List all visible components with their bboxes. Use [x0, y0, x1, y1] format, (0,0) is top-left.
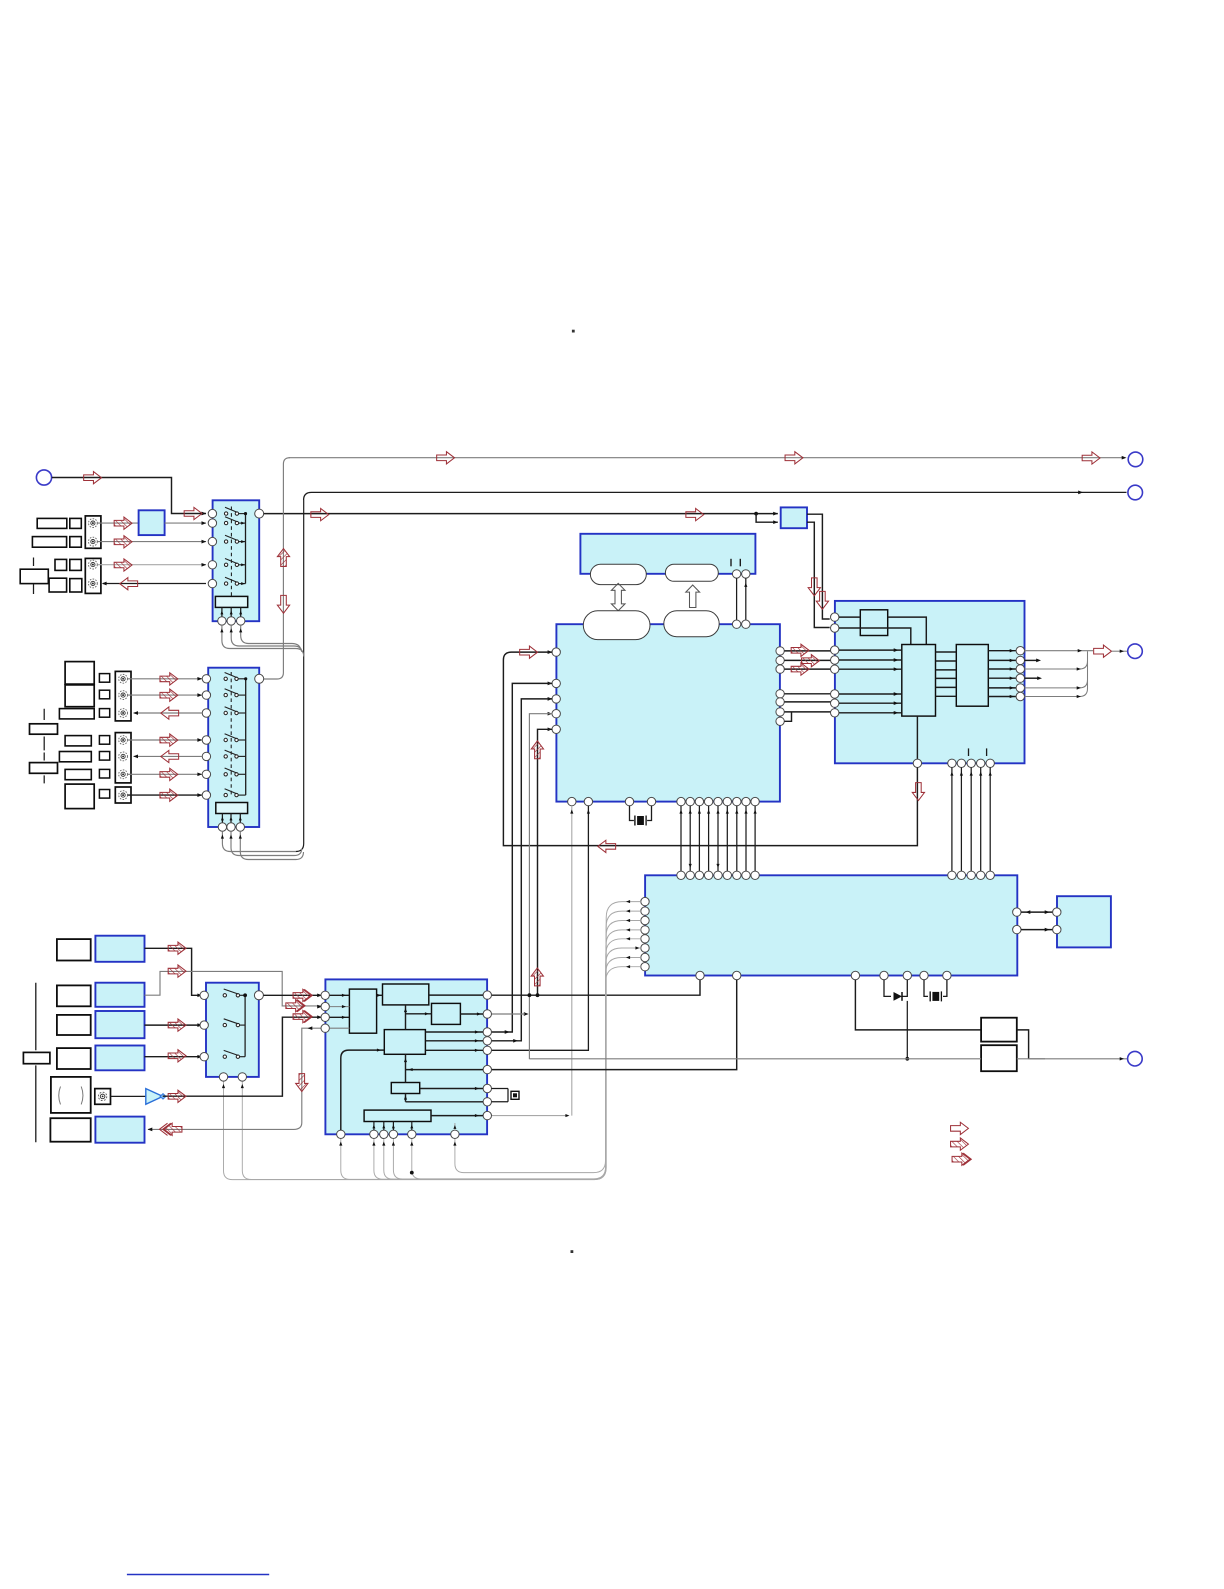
arrow B5 open left: [161, 750, 179, 762]
jack J2 top: [89, 560, 98, 569]
DSP2 bottom arrowhead: [382, 1142, 385, 1146]
SW2 pin3: [202, 709, 210, 717]
SW1 switch s3: [224, 535, 245, 543]
label box VIDEO2: [32, 537, 66, 548]
sysctl left pin 4: [641, 926, 649, 934]
wire out-pin 5: [988, 686, 1016, 689]
SW2 output pin: [255, 674, 264, 683]
wire main-dac g2-4: [785, 712, 792, 721]
SW1 collector: [245, 514, 247, 584]
jack J5 a: [119, 791, 128, 800]
wire J5a to SW2: [128, 793, 203, 797]
arrowhead ctl black: [587, 810, 590, 814]
DSP2 right pin 3: [483, 1028, 491, 1036]
system bar block: [580, 534, 755, 574]
wire main-dac g2-3: [785, 711, 831, 713]
arrow A6 open: [184, 507, 202, 519]
arrow E5 hatch up: [531, 968, 543, 986]
arrowhead into SW1 pin1: [202, 512, 207, 516]
junction dot standby: [905, 1057, 909, 1061]
wire J3b to SW2: [128, 693, 203, 697]
DSP2 right pin 5: [483, 1046, 491, 1054]
label box TP2: [59, 752, 91, 762]
deck plate 2: [30, 763, 58, 774]
main left pin 1: [552, 648, 560, 656]
SW3 collector: [244, 995, 246, 1056]
arrow D1 hatch: [791, 644, 809, 656]
SW2 bottom pin 2: [227, 823, 235, 831]
wire dac in g3-1: [839, 692, 902, 696]
bus wire main-wide 3: [698, 806, 700, 871]
DSP2 right pin 4: [483, 1037, 491, 1045]
riser pin2b gray stub: [491, 1013, 525, 1015]
wire J4c to SW2: [128, 772, 203, 776]
arrowhead main left 2: [548, 682, 553, 686]
SW1 stub arrowhead s5: [241, 582, 245, 585]
DSP2 wire m3: [425, 1049, 483, 1052]
bar stadium S1: [590, 564, 646, 584]
DSP2 right pin 8: [483, 1098, 491, 1106]
arrow G1 hatch2: [293, 989, 312, 1001]
DSP2 left pin 1: [321, 991, 329, 999]
wire mixer-out 6: [936, 695, 957, 697]
label box TP3: [65, 769, 91, 779]
SW3 bot arrowhead 2: [241, 1084, 244, 1088]
extension block U502: [1057, 896, 1111, 947]
bus arrowhead up 4: [707, 810, 710, 814]
wire dacpin2 around: [839, 628, 911, 645]
DSP2 wire out4: [330, 1027, 350, 1029]
jack block J5: [115, 787, 131, 803]
DSP2 left pin 3: [321, 1013, 329, 1021]
SW1 latch wire 2: [230, 607, 233, 616]
jack J3 b: [119, 691, 128, 700]
DSP2 right pin 9: [483, 1111, 491, 1119]
SW2 collector: [245, 679, 247, 795]
jack block J2: [85, 558, 101, 593]
crystal X301 wires: [630, 806, 652, 821]
wire J4a to SW2: [128, 738, 203, 742]
arrow F6 hatch3 left: [159, 1123, 182, 1135]
crystal X601: [503, 1091, 519, 1100]
bus arrowhead down: [689, 864, 692, 868]
DIR box U201: [781, 507, 807, 528]
wire out-pin 6: [988, 695, 1016, 698]
DSP2 left pin 2: [321, 1002, 329, 1010]
DSP2 wire b: [429, 994, 483, 996]
wire dac in g3-2: [839, 701, 902, 705]
bus wire main-wide 2: [689, 806, 691, 871]
diode D501 wires: [884, 980, 907, 997]
sysctl ctl wire 1: [224, 902, 641, 1180]
arrowhead ctl out 7: [626, 956, 630, 959]
SW1 dashed control line: [230, 507, 232, 597]
arrowhead riser3: [513, 1039, 518, 1043]
arrow F1 hatch: [168, 942, 186, 954]
DSP2 wire vert2: [404, 1054, 407, 1082]
jack J4 a: [119, 736, 128, 745]
crystal X501: [930, 991, 941, 1001]
SW2 bottom arrowhead: [239, 835, 242, 839]
wire SW3 to DSP2: [263, 993, 322, 997]
arrowhead DIR in1: [773, 512, 778, 516]
legend arrow hatch: [951, 1138, 969, 1150]
main bottom pin 13: [751, 797, 759, 805]
DAC bottom pin 3: [967, 759, 975, 767]
wire main-dac 3: [785, 668, 831, 670]
label box TAPE d: [70, 579, 82, 592]
arrowhead ctl out 8: [626, 965, 630, 968]
main left pin 4: [552, 710, 560, 718]
DSP2 bottom rect: [364, 1110, 431, 1121]
sysctl right pin 2: [1013, 925, 1021, 933]
stray dot bottom: [571, 1250, 574, 1253]
SW2 bottom pin 3: [236, 823, 244, 831]
DSP2 wire in3: [330, 1016, 350, 1019]
wire pin9 gray link: [491, 1114, 569, 1117]
deck dashed line 2: [43, 709, 45, 784]
wire mixer-out 4: [936, 677, 957, 679]
arrow F7 hatch down: [296, 1074, 308, 1092]
arrowhead main left 5: [548, 727, 553, 731]
legend arrow hatch2: [952, 1153, 971, 1165]
main right pin g1-2: [776, 656, 784, 664]
arrowhead DIR in2: [773, 520, 778, 524]
SW1 pin2: [208, 519, 216, 527]
SW2 latch wire 1: [221, 814, 224, 823]
arrow B3 open left: [161, 707, 179, 719]
SW1 bottom arrowhead: [239, 628, 242, 632]
wire out-pin 1: [988, 649, 1016, 652]
DSP2 bottom arrowhead: [392, 1142, 395, 1146]
arrowhead at J2 bottom: [102, 582, 107, 586]
jack block J3: [115, 671, 131, 721]
main top pin c2: [742, 620, 750, 628]
crystal X501 wires: [924, 980, 947, 997]
sysctl bottom pin 3: [851, 971, 859, 979]
label box VIDEO2b: [70, 537, 82, 548]
arrow A5 open left: [120, 578, 138, 590]
wire sp line6: [1025, 689, 1088, 699]
DAC right pin 5: [1016, 684, 1024, 692]
sysctl left pin 2: [641, 907, 649, 915]
DAC left pin 2: [831, 624, 839, 632]
DAC right pin 6: [1016, 692, 1024, 700]
switch block SW3: [206, 983, 259, 1077]
junction dot riser5: [536, 993, 540, 997]
sysctl bottom pin 6: [920, 971, 928, 979]
arrowhead main left 4: [548, 712, 553, 716]
wire J1top to AD converter: [98, 522, 139, 524]
DAC bottom pin 5: [986, 759, 994, 767]
sysctl top pin 2: [686, 871, 694, 879]
SW3 switch s2: [223, 1019, 245, 1027]
DAC bottom pin 1: [948, 759, 956, 767]
DSP2 left pin 4: [321, 1024, 329, 1032]
arrow E3 open: [520, 646, 538, 658]
SW2 pin4: [202, 736, 210, 744]
main left pin 3: [552, 695, 560, 703]
source box TAPE2: [95, 1046, 144, 1071]
SW2 pin2: [202, 691, 210, 699]
wire J3a to SW2: [128, 677, 203, 681]
jack J3 a: [119, 674, 128, 683]
switch block SW2: [208, 668, 259, 827]
DSP2 bottom arrowhead: [410, 1142, 413, 1146]
DSP2 bottom pin 5: [408, 1130, 416, 1138]
SW2 dashed control line: [230, 672, 232, 797]
SW3 pin3: [200, 1053, 208, 1061]
arrowhead SW1 pin3: [202, 540, 207, 544]
arrow D4 open: [1094, 645, 1112, 657]
DSP2 wire sm out: [420, 1087, 483, 1090]
sysctl left pin 5: [641, 935, 649, 943]
SW3 out pin: [254, 991, 263, 1000]
wire to sp node: [1112, 650, 1128, 653]
sysctl left pin 6: [641, 944, 649, 952]
DSP2 botrect wire: [372, 1122, 375, 1131]
riser pin3: [491, 699, 552, 1041]
main left pin 5: [552, 725, 560, 733]
wire sp stub2: [1025, 659, 1042, 663]
sysctl ctl wire 4: [374, 930, 641, 1179]
SW1 bottom arrowhead: [220, 628, 223, 632]
diode D501: [894, 992, 903, 1001]
label sq t4: [99, 790, 109, 799]
arrow B4 hatch: [160, 734, 178, 746]
bus arrowhead up 5: [716, 810, 719, 814]
label box MD1: [65, 662, 94, 685]
source box PHONES: [95, 1117, 144, 1143]
main right pin g2-1: [776, 690, 784, 698]
wire jack to buffer: [111, 1095, 146, 1097]
sysctl top pin 6: [723, 871, 731, 879]
wire main-dac 1: [785, 650, 831, 652]
arrow B2 hatch: [160, 689, 178, 701]
arrow A9 open: [437, 452, 455, 464]
main stadium S3: [583, 611, 650, 640]
wire sp line5: [1025, 680, 1088, 690]
DSP2 right pin 2: [483, 1010, 491, 1018]
DSP2 small rect: [391, 1083, 419, 1094]
main right pin g2-4: [776, 717, 784, 725]
DAC right pin 3: [1016, 665, 1024, 673]
SW2 bottom arrowhead: [221, 835, 224, 839]
dashed tape deck line: [33, 558, 35, 595]
node SP OUT connector: [1128, 644, 1143, 659]
wire SW2 to J4b: [133, 755, 202, 759]
jack J4 c: [119, 770, 128, 779]
DSP2 pin6 stub: [453, 1123, 456, 1130]
bar pin c1: [732, 570, 740, 578]
DSP2 right pin 6: [483, 1065, 491, 1073]
bar stadium S2: [665, 564, 718, 581]
jack J1 top: [89, 519, 98, 528]
wire main ctl gray: [571, 806, 573, 1116]
label sq t3: [99, 769, 109, 778]
arrow A8 open: [686, 508, 704, 520]
DSP2 wire m1: [425, 1030, 483, 1033]
wire dac in g2-2: [839, 658, 902, 662]
bus arrowhead up 1: [679, 810, 682, 814]
wire TAPE2 to SW3: [145, 1055, 203, 1059]
DSP2 botrect wire: [392, 1122, 395, 1131]
bus arrowhead up 7: [735, 810, 738, 814]
DSP2 botrect wire: [382, 1122, 385, 1131]
label box TAPE wide: [20, 569, 48, 583]
label box MD3: [59, 709, 94, 719]
CD mech box: [51, 1077, 91, 1113]
junction dot main bus: [754, 512, 758, 516]
arrow A13 open down: [277, 595, 289, 613]
SW2 switch s7: [224, 789, 246, 797]
wire AD to SW1 pin2: [165, 522, 206, 524]
SW2 pin5: [202, 752, 210, 760]
SW2 switch s3: [224, 707, 246, 715]
jack block J1: [85, 516, 101, 548]
SW3 pin2: [200, 1021, 208, 1029]
source box DIN: [95, 936, 144, 962]
arrow F2 hatch: [168, 965, 186, 977]
jack block J4: [115, 733, 131, 783]
gray riser to rec bus: [264, 464, 284, 679]
SW3 switch s3: [223, 1050, 245, 1058]
DAC right pin 2: [1016, 656, 1024, 664]
jack J3 c: [119, 709, 128, 718]
SW2 bottom pin 1: [218, 823, 226, 831]
sysctl left pin 8: [641, 963, 649, 971]
wire dac in g2-3: [839, 667, 902, 671]
bar wire tick 2: [739, 559, 741, 567]
wire TUNER rec: [145, 971, 323, 1008]
wire main-dac g2-1: [785, 693, 831, 695]
label box VIDEO1: [37, 518, 67, 528]
SW2 pin6: [202, 770, 210, 778]
wire SW1 pin5 to J2bot: [103, 583, 206, 585]
wire dac in g2-1: [839, 648, 902, 652]
legend arrow open: [951, 1122, 969, 1134]
arrow G2 hatch2: [286, 1000, 305, 1012]
DSP2 bottom pin 2: [370, 1130, 378, 1138]
DSP2 wire bot out: [431, 1114, 483, 1117]
arrow A11 open: [1082, 452, 1100, 464]
DSP2 input rect: [349, 989, 376, 1033]
sysctl top pin 3: [695, 871, 703, 879]
arrow C3 down open: [816, 591, 828, 609]
SW1 bottom pin 1: [218, 617, 226, 625]
bus arrowhead up 9: [754, 810, 757, 814]
bar pin c2: [742, 570, 750, 578]
sysctl top pin 9: [751, 871, 759, 879]
main bottom pin 6: [686, 797, 694, 805]
arrow A12 hatch up: [277, 549, 289, 567]
DSP2 bottom arrowhead: [453, 1142, 456, 1146]
SW2 pin7: [202, 791, 210, 799]
label box TAPE c: [49, 578, 67, 592]
DAC tick 2: [986, 748, 988, 756]
arrowhead ctl out 3: [626, 919, 630, 922]
bus arrowhead up 3: [698, 810, 701, 814]
audio DSP2 block U601: [325, 979, 487, 1134]
DSP2 bottom arrowhead: [372, 1142, 375, 1146]
long control riser: [296, 500, 304, 852]
main top pin c1: [732, 620, 740, 628]
SW2 latch wire 3: [239, 814, 242, 823]
arrow A3 hatched: [114, 536, 132, 548]
wire sysctl-ext 1: [1021, 910, 1053, 914]
node TAPE REC OUT connector: [1128, 485, 1143, 500]
main bottom pin 7: [695, 797, 703, 805]
wire sysctl bot5 long: [906, 1001, 908, 1059]
phones jack box: [95, 1089, 111, 1105]
main DSP block U301: [556, 624, 780, 801]
label box TAPE b: [70, 559, 82, 570]
DAC block U401: [835, 601, 1025, 763]
SW1 bottom pin 2: [227, 617, 235, 625]
wire dacpin1 to reg: [839, 616, 860, 618]
wire dac-wide 1: [950, 768, 953, 872]
main bottom pin 4: [647, 797, 655, 805]
main bottom pin 1: [568, 797, 576, 805]
antenna line: [35, 983, 37, 1143]
arrow B6 hatch: [160, 768, 178, 780]
DSP2 right pin 7: [483, 1084, 491, 1092]
DAC left pin g2-3: [831, 665, 839, 673]
SW2 switch s2: [224, 689, 246, 697]
main right pin g2-2: [776, 698, 784, 706]
DSP2 right rect: [432, 1003, 461, 1024]
sysctl top pin 1: [677, 871, 685, 879]
SW2 latch wire 2: [230, 814, 233, 823]
SW1 pin1: [208, 509, 216, 517]
SW1 switch s5: [224, 577, 245, 585]
arrow A7 open: [311, 508, 329, 520]
main bottom pin 2: [584, 797, 592, 805]
sysctl top pin 7: [733, 871, 741, 879]
arrow B1 hatch: [160, 673, 178, 685]
arrow A10 open: [785, 452, 803, 464]
wire SW1 out to DIR box: [264, 513, 778, 515]
label box TAPE a: [55, 559, 67, 570]
arrow F3 hatch: [168, 1019, 186, 1031]
SW1 stub arrowhead s3: [241, 540, 245, 543]
wire bar c2 to main: [744, 578, 747, 620]
DSP2 wire in6: [406, 1068, 484, 1071]
arrowhead ctl out 4: [626, 928, 630, 931]
bus arrowhead down: [716, 864, 719, 868]
main stadium S4: [664, 611, 719, 637]
arrowhead riser2: [505, 1030, 510, 1034]
wire dac-wide 3: [970, 768, 973, 872]
main bottom pin 11: [733, 797, 741, 805]
label sq t2: [99, 752, 109, 761]
riser pin4 gray: [529, 714, 552, 1059]
bus arrowhead up 8: [744, 810, 747, 814]
wire out-pin 2: [988, 659, 1016, 662]
wire J1bot to SW1 pin3: [98, 541, 207, 543]
DAC bottom pin fb: [913, 759, 921, 767]
crystal X601 wires: [492, 1089, 509, 1102]
DSP2 bottom arrowhead: [339, 1142, 342, 1146]
wire dac in g3-3: [839, 711, 902, 715]
SW1 bottom bus w1: [222, 625, 304, 656]
bus arrowhead up 2: [689, 810, 692, 814]
DAC left pin g3-2: [831, 699, 839, 707]
sysctl right pin 1: [1013, 908, 1021, 916]
arrow A2 hatched: [114, 517, 132, 529]
DAC right pin 1: [1016, 647, 1024, 655]
sysctl left pin 1: [641, 897, 649, 905]
